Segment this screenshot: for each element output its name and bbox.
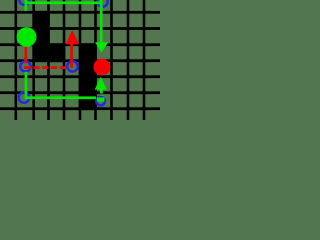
red dashed line node A to node B bbox=[24, 66, 66, 69]
green path A to C bbox=[25, 72, 28, 96]
red target token bbox=[94, 59, 111, 76]
node A (mid-left ring) bbox=[20, 61, 30, 71]
black hole cells column 5 rows 3-6 bbox=[79, 43, 97, 110]
red shaft from green token down to node A bbox=[25, 47, 28, 64]
grid horizontal lines bbox=[0, 11, 160, 110]
red up arrow shaft from node B bbox=[70, 44, 73, 68]
green path C to D bbox=[25, 96, 97, 99]
green shaft from node E down bbox=[100, 0, 103, 42]
node B (mid-center ring) bbox=[67, 61, 77, 71]
green player token bbox=[17, 27, 37, 47]
node E (top-right ring, clipped at top) bbox=[97, 0, 107, 7]
green path F to E along top bbox=[25, 1, 103, 4]
green shaft remnant below grid line bbox=[101, 95, 104, 97]
black hole cell column 3 row 3 bbox=[47, 43, 65, 62]
green up arrowhead above node D bbox=[95, 77, 107, 90]
node C (bottom-left ring) bbox=[19, 92, 29, 102]
green terminus blob inside node D bbox=[97, 97, 105, 101]
green stub below node F bbox=[25, 0, 28, 11]
black hole cells column 2 rows 1-3 bbox=[32, 11, 49, 62]
board background bbox=[0, 0, 160, 120]
node F (top-left ring, clipped at top) bbox=[19, 0, 29, 5]
grid vertical lines bbox=[15, 0, 146, 120]
node D (bottom-right ring) bbox=[96, 97, 105, 106]
green up arrow shaft stub bbox=[100, 89, 103, 93]
green down arrowhead bbox=[95, 42, 108, 52]
red up arrowhead bbox=[66, 30, 79, 45]
